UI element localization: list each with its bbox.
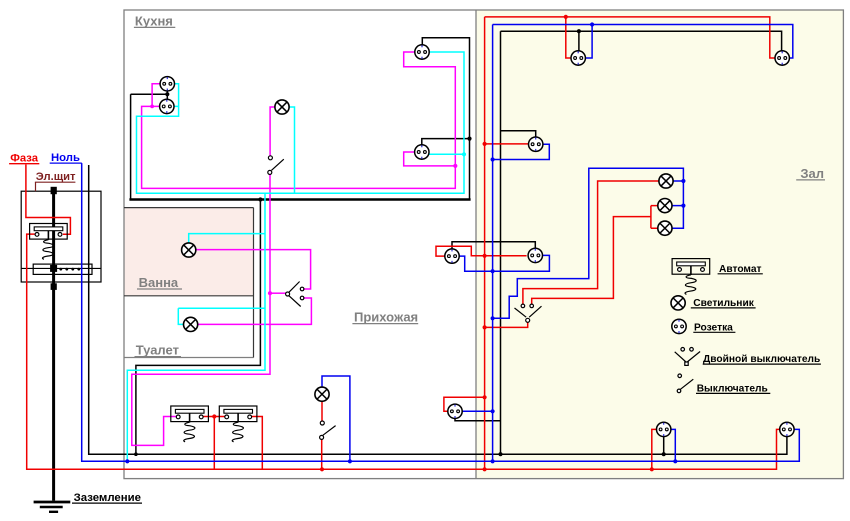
svg-text:Двойной выключатель: Двойной выключатель <box>703 354 820 365</box>
svg-text:Ванна: Ванна <box>139 275 179 290</box>
svg-text:Ноль: Ноль <box>51 152 80 164</box>
svg-text:Розетка: Розетка <box>694 322 733 333</box>
svg-text:Фаза: Фаза <box>10 153 39 165</box>
svg-text:Эл.щит: Эл.щит <box>36 171 76 183</box>
svg-text:Зал: Зал <box>800 166 824 181</box>
svg-text:Туалет: Туалет <box>136 343 179 358</box>
svg-text:Светильник: Светильник <box>693 298 754 309</box>
svg-text:Выключатель: Выключатель <box>697 383 768 394</box>
svg-text:Кухня: Кухня <box>135 13 173 28</box>
svg-text:Прихожая: Прихожая <box>354 310 418 325</box>
svg-text:Автомат: Автомат <box>719 264 762 275</box>
svg-text:Заземление: Заземление <box>74 492 141 504</box>
